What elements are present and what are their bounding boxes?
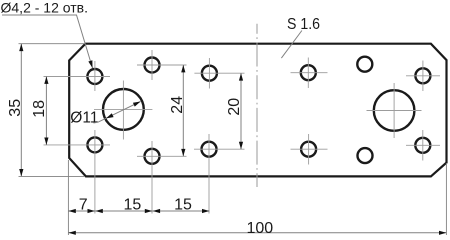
hole A1 — [87, 69, 102, 84]
hole A2 — [87, 137, 102, 152]
big hole L (Ø11) — [103, 89, 144, 130]
dim 7/15/15 line — [68, 210, 209, 212]
svg-text:Ø4,2 - 12 отв.: Ø4,2 - 12 отв. — [1, 0, 88, 16]
dim 35 extension lines — [19, 44, 86, 177]
svg-text:18: 18 — [31, 100, 48, 118]
hole D2 — [301, 142, 316, 157]
hole C1 centerlines — [194, 58, 244, 89]
dim 100 line — [68, 232, 446, 234]
svg-text:15: 15 — [174, 197, 192, 214]
dim 18 line — [45, 77, 47, 145]
big hole L centerlines — [94, 81, 152, 140]
hole B2 — [145, 149, 160, 164]
hole B2 centerlines — [137, 141, 187, 214]
svg-text:15: 15 — [124, 197, 142, 214]
plate outline — [69, 44, 446, 177]
hole E2 (no centerlines) — [358, 148, 373, 163]
svg-text:20: 20 — [226, 98, 243, 116]
hole B1 — [145, 58, 160, 73]
dim 20 line — [240, 73, 242, 149]
S 1.6 leader — [281, 31, 302, 59]
Ø11 diameter leader line — [94, 102, 141, 124]
bottom extension line left (x=68.4) — [67, 160, 69, 235]
hole F2 — [415, 138, 430, 153]
hole C2 centerlines — [194, 134, 245, 214]
svg-text:Ø11: Ø11 — [70, 110, 98, 127]
hole D1 — [301, 65, 316, 80]
bottom extension line right (x=446.4) — [445, 163, 447, 235]
svg-text:7: 7 — [79, 196, 88, 213]
big hole R — [374, 90, 415, 131]
label leader underline — [2, 15, 93, 68]
dim 35 line — [20, 44, 22, 177]
svg-text:S 1.6: S 1.6 — [287, 16, 320, 33]
hole F2 centerlines — [406, 130, 440, 161]
hole F1 — [415, 68, 430, 83]
hole D1 centerlines — [291, 58, 328, 89]
label leader arrow — [88, 60, 94, 68]
big hole R centerlines — [367, 83, 422, 138]
hole B1 centerlines — [137, 50, 187, 80]
hole D2 centerlines — [291, 134, 328, 165]
svg-text:100: 100 — [246, 220, 273, 237]
svg-text:35: 35 — [7, 99, 24, 117]
svg-text:24: 24 — [169, 96, 186, 114]
hole F1 centerlines — [406, 61, 440, 92]
hole A1 centerlines — [44, 61, 111, 91]
hole A2 centerlines — [44, 130, 111, 214]
dim 24 line — [182, 65, 184, 156]
centerline (vertical dash-dot axis) — [256, 24, 258, 187]
hole E1 (no centerlines) — [357, 57, 372, 72]
hole C2 — [202, 142, 217, 157]
hole C1 — [202, 66, 217, 81]
Ø11 arrows at rim — [105, 113, 113, 120]
